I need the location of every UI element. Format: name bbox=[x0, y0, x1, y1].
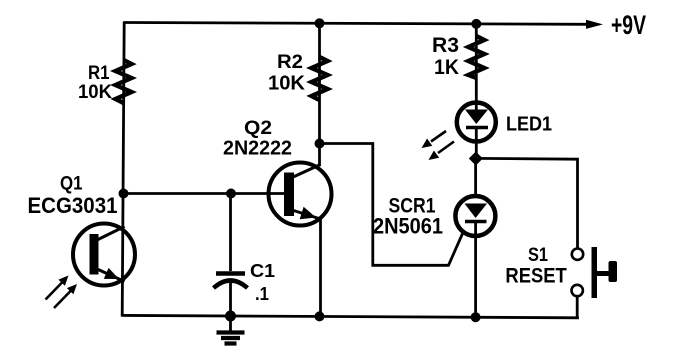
label R1 value bbox=[78, 62, 112, 103]
label Q2 2N2222 bbox=[223, 117, 292, 160]
wire: LED node to S1 bbox=[476, 158, 578, 248]
label C1 value bbox=[250, 261, 275, 304]
wire: Q2 base wire bbox=[124, 192, 287, 195]
svg-text:1K: 1K bbox=[434, 56, 459, 79]
svg-text:10K: 10K bbox=[78, 81, 112, 103]
label R3 value bbox=[432, 34, 459, 79]
svg-text:ECG3031: ECG3031 bbox=[28, 193, 118, 218]
svg-text:Q1: Q1 bbox=[60, 173, 83, 195]
svg-text:10K: 10K bbox=[268, 72, 305, 95]
wire: R3 branch vertical (top rail to LED anode) bbox=[475, 24, 478, 104]
node: junction dot top rail / R2 bbox=[315, 18, 325, 28]
switch S1 (RESET pushbutton) bbox=[572, 247, 618, 318]
svg-text:+9V: +9V bbox=[611, 10, 646, 40]
node: junction dot Q2 emitter / bottom rail bbox=[315, 311, 325, 321]
capacitor C1 bbox=[214, 194, 248, 317]
LED LED1 bbox=[457, 103, 496, 159]
node: junction dot top rail / R3 bbox=[471, 19, 481, 29]
svg-text:R2: R2 bbox=[277, 51, 303, 73]
node: junction dot LED cathode / switch wire bbox=[469, 152, 483, 166]
wire: left vertical branch bbox=[122, 21, 124, 316]
resistor R3 bbox=[468, 36, 484, 78]
light arrows out of LED1 bbox=[422, 131, 455, 160]
node: junction dot C1 top bbox=[226, 189, 236, 199]
wire: Q2 emitter to bottom rail bbox=[319, 218, 322, 317]
ground symbol bbox=[217, 316, 245, 344]
node: junction dot SCR cathode / bottom rail bbox=[471, 312, 481, 322]
svg-text:2N5061: 2N5061 bbox=[373, 213, 443, 238]
resistor R1 bbox=[116, 60, 132, 103]
label SCR1 2N5061 bbox=[373, 193, 443, 239]
node: junction dot R2 / Q2 collector bbox=[315, 139, 325, 149]
svg-text:Q2: Q2 bbox=[244, 117, 272, 139]
resistor R2 bbox=[312, 57, 328, 100]
light arrows into Q1 bbox=[46, 276, 78, 309]
wire: Q2 collector to SCR1 gate bbox=[320, 144, 464, 266]
label S1 RESET bbox=[505, 244, 566, 288]
svg-text:.1: .1 bbox=[255, 284, 269, 304]
label Q1 ECG3031 bbox=[28, 173, 118, 219]
svg-text:LED1: LED1 bbox=[506, 112, 552, 135]
node: junction dot ground bbox=[225, 311, 236, 322]
wire: +9V top supply rail bbox=[124, 20, 603, 29]
SCR SCR1 (2N5061) bbox=[455, 159, 495, 318]
svg-text:S1: S1 bbox=[528, 244, 548, 266]
svg-text:2N2222: 2N2222 bbox=[223, 138, 292, 160]
transistor Q2 (2N2222) bbox=[269, 163, 332, 226]
label R2 value bbox=[268, 51, 305, 95]
svg-text:R3: R3 bbox=[432, 34, 459, 57]
transistor Q1 (phototransistor ECG3031) bbox=[73, 224, 135, 286]
node: junction dot base wire left bbox=[119, 189, 129, 199]
svg-text:C1: C1 bbox=[250, 261, 275, 282]
wire: R2 branch vertical (top rail to Q2 collector) bbox=[318, 23, 321, 166]
wire: bottom ground rail bbox=[122, 315, 579, 317]
svg-text:RESET: RESET bbox=[505, 264, 566, 288]
